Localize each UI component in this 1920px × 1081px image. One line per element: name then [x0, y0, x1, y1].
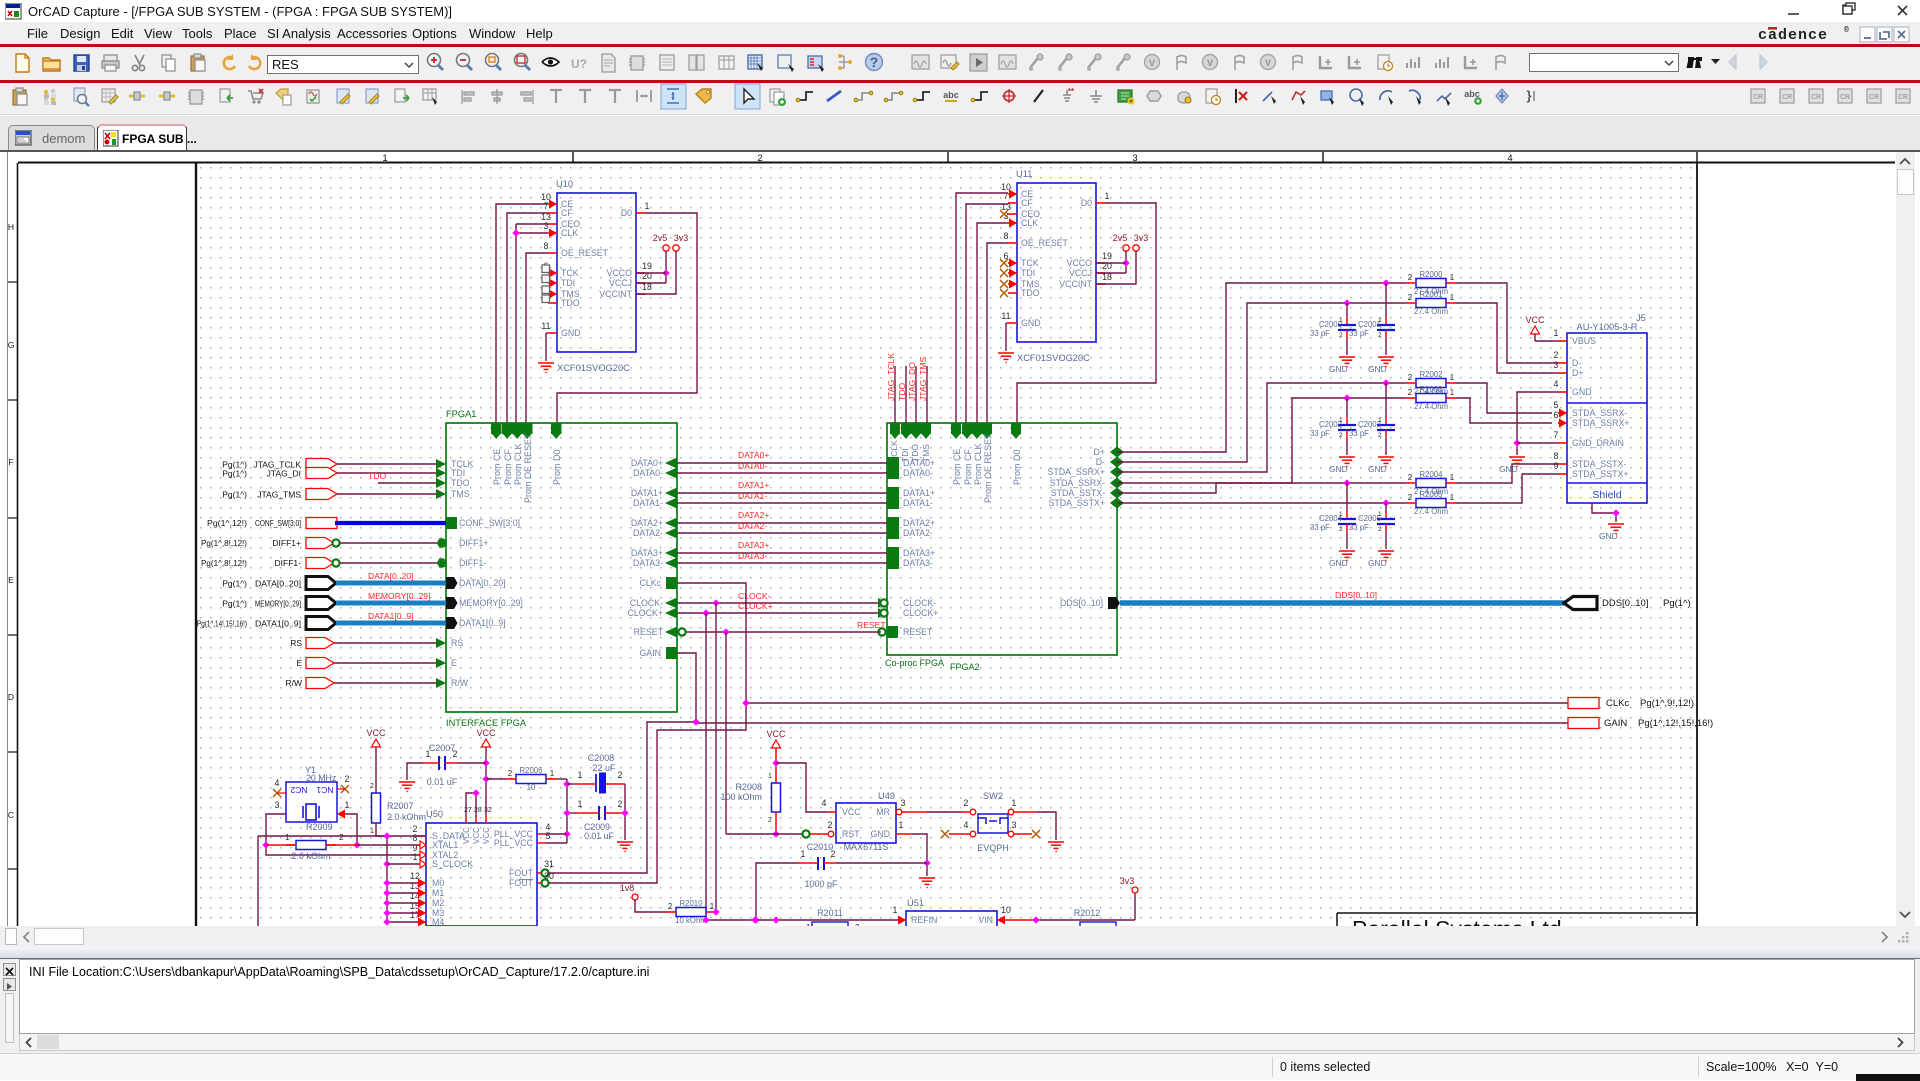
svg-text:DDS[0..10]: DDS[0..10]	[1335, 590, 1377, 600]
svg-text:1: 1	[285, 832, 290, 842]
svg-text:1: 1	[1450, 293, 1455, 302]
svg-text:1: 1	[426, 749, 431, 759]
svg-text:1: 1	[801, 849, 806, 859]
svg-text:RST: RST	[842, 829, 860, 839]
svg-text:FOUT: FOUT	[509, 868, 534, 878]
svg-text:Prom D0: Prom D0	[1012, 449, 1022, 485]
svg-text:2v5: 2v5	[1113, 233, 1128, 243]
svg-text:?: ?	[870, 54, 879, 70]
svg-text:1: 1	[1105, 191, 1110, 201]
svg-text:JTAG_TCLK: JTAG_TCLK	[886, 353, 896, 401]
svg-text:TDO: TDO	[368, 471, 386, 481]
svg-text:2: 2	[757, 153, 762, 164]
svg-text:GND: GND	[870, 829, 890, 839]
svg-text:4: 4	[1507, 153, 1512, 164]
svg-text:TMS: TMS	[451, 489, 470, 499]
svg-text:19: 19	[642, 261, 652, 271]
svg-text:Prom CLK: Prom CLK	[973, 443, 983, 485]
svg-text:Pg(1^): Pg(1^)	[222, 490, 247, 500]
svg-text:8: 8	[413, 833, 418, 843]
svg-text:1000 pF: 1000 pF	[804, 879, 838, 889]
svg-text:2.0 kOhm: 2.0 kOhm	[291, 851, 330, 861]
svg-text:DATA2-: DATA2-	[633, 528, 663, 538]
svg-text:R2008: R2008	[735, 782, 762, 792]
svg-text:TDO: TDO	[1021, 288, 1040, 298]
svg-text:abc: abc	[943, 90, 959, 100]
svg-text:M0: M0	[432, 878, 444, 888]
svg-text:R2002: R2002	[1420, 370, 1443, 379]
svg-text:CONF_SW[3:0]: CONF_SW[3:0]	[255, 518, 301, 528]
svg-text:NC2: NC2	[290, 785, 307, 795]
svg-text:5: 5	[1554, 400, 1559, 410]
svg-text:RESET: RESET	[857, 620, 886, 630]
svg-text:CLOCK+: CLOCK+	[738, 601, 773, 611]
svg-text:32: 32	[484, 807, 492, 814]
svg-text:DATA3-: DATA3-	[738, 551, 767, 561]
svg-text:20 MHz: 20 MHz	[306, 773, 336, 783]
svg-text:XCF01SVOG20C: XCF01SVOG20C	[1017, 353, 1090, 363]
svg-text:DIFF1-: DIFF1-	[459, 558, 486, 568]
svg-text:AU-Y1005-3-R: AU-Y1005-3-R	[1577, 322, 1638, 332]
svg-text:DATA1-: DATA1-	[738, 491, 767, 501]
svg-text:0.01 uF: 0.01 uF	[427, 777, 458, 787]
svg-text:1: 1	[1450, 273, 1455, 282]
svg-text:M4: M4	[432, 917, 444, 926]
svg-text:3: 3	[1554, 360, 1559, 370]
svg-text:FPGA2: FPGA2	[950, 662, 980, 672]
svg-text:2: 2	[1408, 273, 1413, 282]
svg-text:R2004: R2004	[1420, 470, 1444, 479]
svg-text:Shield: Shield	[1592, 489, 1621, 501]
svg-text:GND: GND	[1368, 558, 1387, 568]
svg-text:CR: CR	[1782, 94, 1792, 101]
svg-text:DATA3+: DATA3+	[631, 548, 663, 558]
svg-text:DATA1[0..9]: DATA1[0..9]	[459, 618, 506, 628]
svg-text:R2010: R2010	[680, 899, 704, 908]
svg-text:XTAL1: XTAL1	[432, 840, 458, 850]
svg-text:33 pF: 33 pF	[1310, 523, 1330, 532]
svg-text:2: 2	[1339, 332, 1343, 339]
svg-text:2: 2	[370, 783, 374, 790]
svg-text:GND: GND	[1499, 464, 1518, 474]
svg-text:DATA[0..20]: DATA[0..20]	[368, 571, 414, 581]
svg-text:DIFF1-: DIFF1-	[275, 558, 302, 568]
svg-text:DATA1-: DATA1-	[633, 498, 663, 508]
svg-text:C: C	[8, 810, 14, 820]
svg-text:STDA_SSTX+: STDA_SSTX+	[1572, 469, 1628, 479]
svg-text:CR: CR	[1840, 94, 1850, 101]
svg-text:DATA1-: DATA1-	[903, 498, 933, 508]
svg-text:D-: D-	[1572, 358, 1581, 368]
svg-text:M1: M1	[432, 888, 444, 898]
svg-text:Prom CLK: Prom CLK	[513, 443, 523, 485]
svg-text:Pg(1^,9!,12!): Pg(1^,9!,12!)	[1640, 698, 1694, 709]
svg-text:}: }	[1526, 88, 1531, 103]
svg-text:TCK: TCK	[1021, 258, 1039, 268]
svg-text:2: 2	[1408, 373, 1413, 382]
svg-text:U11: U11	[1016, 169, 1032, 179]
svg-text:V: V	[1265, 58, 1271, 68]
svg-text:CLK: CLK	[1021, 218, 1038, 228]
svg-text:Pg(1^,8!,12!): Pg(1^,8!,12!)	[201, 558, 247, 568]
svg-text:DATA1[0..9]: DATA1[0..9]	[368, 611, 414, 621]
svg-text:DATA2-: DATA2-	[738, 521, 767, 531]
svg-text:C2008: C2008	[588, 753, 615, 763]
svg-text:CLOCK-: CLOCK-	[738, 591, 771, 601]
svg-text:R2006: R2006	[520, 766, 543, 775]
svg-text:Pg(1^): Pg(1^)	[222, 579, 247, 589]
svg-text:DATA[0..20]: DATA[0..20]	[459, 578, 506, 588]
svg-text:STDA_SSTX-: STDA_SSTX-	[1051, 488, 1105, 498]
svg-text:0.01 uF: 0.01 uF	[584, 831, 614, 841]
svg-text:R2007: R2007	[387, 801, 414, 811]
svg-text:1: 1	[578, 770, 583, 780]
svg-text:2: 2	[1378, 332, 1382, 339]
svg-text:2: 2	[453, 749, 458, 759]
svg-text:2: 2	[828, 820, 833, 830]
svg-text:DIFF1+: DIFF1+	[459, 538, 489, 548]
svg-text:27.4 Ohm: 27.4 Ohm	[1414, 507, 1448, 516]
svg-text:TDO: TDO	[897, 383, 907, 401]
svg-text:OE_RESET: OE_RESET	[1021, 238, 1069, 248]
svg-text:GND: GND	[1329, 364, 1348, 374]
svg-text:R2012: R2012	[1074, 908, 1101, 918]
svg-text:DATA3-: DATA3-	[903, 558, 933, 568]
svg-text:R2000: R2000	[1420, 270, 1444, 279]
svg-text:CR: CR	[1811, 94, 1821, 101]
svg-text:DATA0+: DATA0+	[631, 458, 663, 468]
svg-text:MEMORY[0..29]: MEMORY[0..29]	[459, 598, 523, 608]
svg-text:2: 2	[345, 774, 350, 784]
svg-text:V: V	[1207, 58, 1213, 68]
svg-text:D+: D+	[1094, 447, 1106, 457]
svg-text:2: 2	[618, 799, 623, 809]
svg-text:Prom CF: Prom CF	[963, 448, 973, 485]
svg-text:GAIN: GAIN	[1604, 718, 1627, 729]
svg-text:S_CLOCK: S_CLOCK	[432, 859, 473, 869]
svg-text:27: 27	[464, 807, 472, 814]
svg-text:E: E	[296, 658, 302, 668]
svg-text:®: ®	[1844, 26, 1849, 35]
svg-text:DATA1[0..9]: DATA1[0..9]	[255, 619, 301, 629]
svg-text:U50: U50	[426, 809, 443, 819]
svg-text:1: 1	[370, 828, 374, 835]
svg-text:Pg(1^): Pg(1^)	[1663, 598, 1691, 609]
svg-text:VCC: VCC	[472, 827, 481, 844]
svg-text:D0: D0	[1081, 198, 1092, 208]
svg-text:C2007: C2007	[429, 743, 456, 753]
svg-text:1: 1	[413, 852, 418, 862]
svg-text:11: 11	[1001, 311, 1010, 321]
svg-text:8: 8	[1554, 451, 1559, 461]
svg-text:U?: U?	[571, 57, 587, 71]
svg-text:VCCJ: VCCJ	[1069, 268, 1092, 278]
svg-text:1: 1	[1339, 317, 1343, 324]
svg-text:DATA0+: DATA0+	[903, 458, 935, 468]
svg-text:1: 1	[1378, 417, 1382, 424]
svg-text:VCC: VCC	[482, 827, 491, 844]
svg-text:RS: RS	[290, 638, 302, 648]
svg-text:3: 3	[901, 798, 906, 808]
svg-text:DATA0+: DATA0+	[738, 450, 769, 460]
svg-text:VCCO: VCCO	[1067, 258, 1093, 268]
svg-text:DATA0-: DATA0-	[738, 461, 767, 471]
svg-text:TDO: TDO	[561, 298, 580, 308]
svg-text:TDI: TDI	[451, 468, 465, 478]
svg-text:6: 6	[1554, 410, 1559, 420]
svg-text:C2010: C2010	[807, 842, 834, 852]
svg-text:1: 1	[893, 905, 898, 915]
svg-text:CLOCK+: CLOCK+	[628, 608, 663, 618]
svg-text:11: 11	[541, 321, 550, 331]
svg-text:MEMORY[0..29]: MEMORY[0..29]	[368, 591, 430, 601]
svg-text:CR: CR	[1898, 94, 1908, 101]
svg-text:1: 1	[382, 153, 387, 164]
svg-text:Pg(1^,8!,12!): Pg(1^,8!,12!)	[201, 538, 247, 548]
svg-text:XCF01SVOG20C: XCF01SVOG20C	[557, 363, 630, 373]
svg-text:VCC: VCC	[462, 827, 471, 844]
svg-text:R2001: R2001	[1420, 290, 1443, 299]
svg-text:VBUS: VBUS	[1572, 336, 1596, 346]
svg-text:EVQPH: EVQPH	[977, 843, 1009, 853]
svg-text:Prom CF: Prom CF	[503, 448, 513, 485]
svg-text:VCCO: VCCO	[607, 268, 633, 278]
svg-text:VCCINT: VCCINT	[599, 289, 632, 299]
svg-text:STDA_SSRX-: STDA_SSRX-	[1572, 408, 1627, 418]
svg-text:Prom CE: Prom CE	[492, 448, 502, 485]
svg-text:SW2: SW2	[983, 791, 1003, 801]
svg-text:27.4 Ohm: 27.4 Ohm	[1414, 307, 1448, 316]
svg-text:1: 1	[1378, 511, 1382, 518]
svg-text:Pg(1^,12!): Pg(1^,12!)	[207, 518, 247, 528]
svg-text:33 pF: 33 pF	[1349, 329, 1369, 338]
svg-text:DATA2-: DATA2-	[903, 528, 933, 538]
svg-text:1: 1	[645, 201, 650, 211]
svg-text:3: 3	[544, 221, 549, 231]
svg-text:3v3: 3v3	[1134, 233, 1149, 243]
svg-text:STDA_SSTX-: STDA_SSTX-	[1572, 459, 1626, 469]
svg-text:DATA0-: DATA0-	[903, 468, 933, 478]
svg-text:GND: GND	[1599, 531, 1618, 541]
svg-text:1: 1	[578, 799, 583, 809]
svg-text:RESET: RESET	[634, 627, 664, 637]
svg-text:VIN: VIN	[978, 915, 993, 925]
svg-text:E: E	[451, 658, 457, 668]
svg-text:FPGA1: FPGA1	[446, 409, 476, 419]
svg-text:MR: MR	[876, 807, 890, 817]
svg-text:1: 1	[1450, 473, 1455, 482]
svg-text:DATA3+: DATA3+	[903, 548, 935, 558]
svg-text:3: 3	[1132, 153, 1137, 164]
svg-text:R2003: R2003	[1420, 385, 1443, 394]
svg-text:2: 2	[1408, 388, 1413, 397]
svg-text:D0: D0	[621, 208, 632, 218]
svg-text:CR: CR	[1869, 94, 1879, 101]
svg-text:Co-proc FPGA: Co-proc FPGA	[885, 658, 944, 668]
svg-text:DDS[0..10]: DDS[0..10]	[1060, 598, 1103, 608]
svg-text:GND: GND	[1021, 318, 1041, 328]
svg-text:7: 7	[1554, 430, 1559, 440]
svg-text:3: 3	[1012, 820, 1017, 830]
svg-text:CF: CF	[561, 208, 573, 218]
svg-text:Prom OE RESET: Prom OE RESET	[983, 433, 993, 503]
svg-text:TDI: TDI	[1021, 268, 1035, 278]
svg-text:2: 2	[1554, 350, 1559, 360]
svg-text:2: 2	[508, 769, 513, 778]
svg-text:2: 2	[964, 798, 969, 808]
svg-text:Pg(1^): Pg(1^)	[222, 599, 247, 609]
svg-text:OE_RESET: OE_RESET	[561, 248, 609, 258]
svg-text:R2011: R2011	[817, 908, 843, 918]
svg-text:8: 8	[544, 241, 549, 251]
svg-text:CLOCK-: CLOCK-	[630, 598, 663, 608]
svg-text:R/W: R/W	[451, 678, 469, 688]
svg-text:3: 3	[275, 800, 280, 810]
svg-text:MEMORY[0..29]: MEMORY[0..29]	[255, 599, 301, 609]
svg-text:U51: U51	[907, 898, 924, 908]
svg-text:CLKc: CLKc	[1606, 698, 1629, 709]
svg-text:4: 4	[964, 820, 969, 830]
svg-text:10: 10	[527, 783, 536, 792]
svg-text:STDA_SSTX+: STDA_SSTX+	[1049, 498, 1105, 508]
svg-text:R/W: R/W	[285, 678, 302, 688]
svg-text:8: 8	[1004, 231, 1009, 241]
svg-text:1: 1	[1012, 798, 1017, 808]
svg-text:G: G	[8, 340, 14, 350]
svg-text:DATA2+: DATA2+	[738, 510, 769, 520]
svg-text:D+: D+	[1572, 368, 1584, 378]
svg-text:RESET: RESET	[903, 627, 933, 637]
svg-text:2: 2	[768, 817, 772, 824]
svg-text:DATA3-: DATA3-	[633, 558, 663, 568]
svg-text:DATA[0..20]: DATA[0..20]	[255, 579, 301, 589]
svg-text:DATA1+: DATA1+	[903, 488, 935, 498]
svg-text:STDA_SSRX+: STDA_SSRX+	[1048, 467, 1105, 477]
svg-text:2: 2	[668, 902, 673, 911]
svg-text:2: 2	[1408, 473, 1413, 482]
svg-text:Parallel Systems Ltd: Parallel Systems Ltd	[1352, 916, 1562, 926]
svg-text:1: 1	[1339, 417, 1343, 424]
svg-text:10 kOhm: 10 kOhm	[675, 916, 707, 925]
svg-text:1v8: 1v8	[620, 883, 635, 893]
svg-text:2v5: 2v5	[653, 233, 668, 243]
svg-text:22 uF: 22 uF	[592, 763, 616, 773]
svg-text:TDI: TDI	[561, 278, 575, 288]
svg-text:CLKc: CLKc	[639, 578, 661, 588]
svg-text:27.4 Ohm: 27.4 Ohm	[1414, 402, 1448, 411]
svg-text:4: 4	[1554, 379, 1559, 389]
svg-text:**: **	[1068, 87, 1075, 96]
svg-text:2: 2	[1408, 493, 1413, 502]
svg-text:1: 1	[768, 773, 772, 780]
svg-text:DATA0-: DATA0-	[633, 468, 663, 478]
svg-text:JTAG_DO: JTAG_DO	[907, 362, 917, 401]
svg-text:DATA1+: DATA1+	[738, 480, 769, 490]
svg-text:19: 19	[1102, 251, 1112, 261]
svg-text:MAX6711S: MAX6711S	[844, 842, 889, 852]
svg-text:GND_DRAIN: GND_DRAIN	[1572, 438, 1624, 448]
svg-text:VCC: VCC	[766, 729, 786, 739]
svg-text:D: D	[8, 692, 14, 702]
svg-text:3v3: 3v3	[674, 233, 689, 243]
svg-text:33 pF: 33 pF	[1310, 429, 1330, 438]
svg-text:2: 2	[339, 832, 344, 842]
svg-text:Pg(1^): Pg(1^)	[222, 469, 247, 479]
svg-text:2: 2	[1408, 293, 1413, 302]
svg-text:Prom CE: Prom CE	[952, 448, 962, 485]
svg-text:GND: GND	[1368, 364, 1387, 374]
svg-text:DIFF1+: DIFF1+	[272, 538, 301, 548]
svg-text:NC1: NC1	[316, 785, 333, 795]
svg-text:JTAG_TMS: JTAG_TMS	[918, 356, 928, 401]
svg-text:1: 1	[1450, 373, 1455, 382]
svg-text:DATA3+: DATA3+	[738, 540, 769, 550]
svg-text:STDA_SSRX-: STDA_SSRX-	[1050, 478, 1105, 488]
svg-text:2: 2	[831, 849, 836, 859]
svg-text:VCC: VCC	[842, 807, 861, 817]
svg-text:VCC: VCC	[1525, 315, 1545, 325]
svg-text:DATA2+: DATA2+	[631, 518, 663, 528]
svg-text:1: 1	[1378, 317, 1382, 324]
svg-text:VCCINT: VCCINT	[1059, 279, 1092, 289]
svg-text:33 pF: 33 pF	[1349, 523, 1369, 532]
svg-text:GND: GND	[1368, 464, 1387, 474]
svg-text:Pg(1^,14!,15!,16!): Pg(1^,14!,15!,16!)	[197, 619, 247, 629]
svg-text:100 kOhm: 100 kOhm	[720, 792, 762, 802]
svg-text:STDA_SSRX+: STDA_SSRX+	[1572, 418, 1629, 428]
svg-text:1: 1	[1450, 388, 1455, 397]
svg-text:1: 1	[550, 769, 555, 778]
svg-text:RS: RS	[451, 638, 463, 648]
svg-text:VCC: VCC	[366, 728, 386, 738]
svg-text:33 pF: 33 pF	[1310, 329, 1330, 338]
svg-text:TCK: TCK	[561, 268, 579, 278]
svg-text:3v3: 3v3	[1120, 876, 1135, 886]
svg-text:GND: GND	[1329, 558, 1348, 568]
svg-text:Prom D0: Prom D0	[552, 449, 562, 485]
svg-text:2: 2	[1378, 526, 1382, 533]
svg-text:D-: D-	[1096, 457, 1105, 467]
svg-text:CLOCK-: CLOCK-	[903, 598, 936, 608]
svg-text:4: 4	[822, 798, 827, 808]
svg-text:VCC: VCC	[476, 728, 496, 738]
svg-text:Pg(1^,12!,15!,16!): Pg(1^,12!,15!,16!)	[1638, 718, 1713, 729]
svg-text:U49: U49	[878, 791, 895, 801]
svg-text:DATA1+: DATA1+	[631, 488, 663, 498]
svg-text:V: V	[1149, 58, 1155, 68]
svg-text:CF: CF	[1021, 198, 1033, 208]
svg-text:31: 31	[544, 859, 554, 869]
svg-text:1: 1	[899, 820, 904, 830]
svg-text:R2009: R2009	[306, 822, 333, 832]
svg-text:CONF_SW[3:0]: CONF_SW[3:0]	[459, 518, 520, 528]
svg-text:9: 9	[1554, 461, 1559, 471]
svg-text:2: 2	[618, 770, 623, 780]
svg-text:R2005: R2005	[1420, 490, 1444, 499]
svg-text:10: 10	[1001, 905, 1011, 915]
svg-text:2: 2	[1378, 432, 1382, 439]
svg-text:E: E	[8, 575, 14, 585]
svg-text:M2: M2	[432, 898, 444, 908]
svg-text:CLK: CLK	[561, 228, 578, 238]
svg-text:GND: GND	[1329, 464, 1348, 474]
svg-text:7: 7	[544, 201, 549, 211]
svg-text:JTAG_DI: JTAG_DI	[267, 469, 301, 479]
svg-text:INTERFACE FPGA: INTERFACE FPGA	[446, 718, 527, 728]
svg-text:1: 1	[1339, 511, 1343, 518]
svg-text:1: 1	[710, 902, 715, 911]
svg-text:U10: U10	[556, 179, 573, 189]
